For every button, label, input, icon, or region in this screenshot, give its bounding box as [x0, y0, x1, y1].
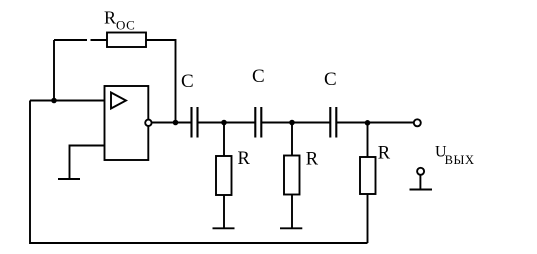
terminal output upper	[414, 119, 421, 126]
wire op-amp output to C	[152, 122, 191, 124]
resistor R2	[284, 156, 300, 195]
op-amp U1 body	[105, 86, 149, 160]
svg-text:R: R	[306, 150, 319, 170]
ground bar lower terminal	[410, 189, 433, 191]
wire R2 to ground	[291, 195, 293, 229]
wire bottom feedback rail to non-inverting input	[30, 101, 368, 244]
wire Roc right to output node	[146, 40, 176, 123]
op-amp U1 gain triangle	[111, 93, 126, 109]
resistor R3	[360, 157, 376, 194]
junction node output/Roc	[173, 120, 179, 126]
op-amp output inversion circle	[145, 120, 151, 126]
wire lower terminal stem	[419, 175, 421, 190]
junction node A (op-amp + input)	[51, 98, 57, 104]
svg-text:R: R	[238, 149, 251, 169]
svg-text:C: C	[181, 71, 194, 92]
svg-text:UВЫХ: UВЫХ	[435, 144, 475, 167]
wire top feedback right of gap	[91, 39, 108, 41]
wire node2 down to R2	[291, 123, 293, 156]
resistor R1	[216, 156, 232, 195]
wire non-inverting input	[30, 100, 105, 102]
wire top feedback left segment	[54, 39, 87, 41]
capacitor C3	[330, 107, 336, 138]
wire C3 to output terminal	[337, 122, 414, 124]
capacitor C1	[192, 107, 198, 138]
wire node3 down to R3	[367, 123, 369, 158]
svg-text:R: R	[378, 143, 391, 163]
svg-text:RОС: RОС	[104, 8, 135, 33]
junction node 1	[221, 120, 227, 126]
wire node1 down to R1	[223, 123, 225, 157]
wire R3 down to bottom feedback rail	[367, 194, 369, 243]
wire inverting input	[70, 146, 105, 180]
ground R1	[213, 227, 235, 229]
resistor Roc	[107, 33, 146, 48]
terminal output lower	[417, 168, 424, 175]
ground op-amp input	[58, 178, 80, 180]
wire C2 to C3	[262, 122, 330, 124]
ground R2	[280, 227, 302, 229]
wire C1 to C2	[199, 122, 255, 124]
junction node 3	[365, 120, 371, 126]
svg-text:C: C	[252, 66, 265, 87]
svg-text:C: C	[324, 69, 337, 90]
wire R1 to ground	[223, 195, 225, 228]
wire Roc left down to op-amp input	[53, 40, 55, 101]
capacitor C2	[255, 107, 261, 138]
junction node 2	[289, 120, 295, 126]
